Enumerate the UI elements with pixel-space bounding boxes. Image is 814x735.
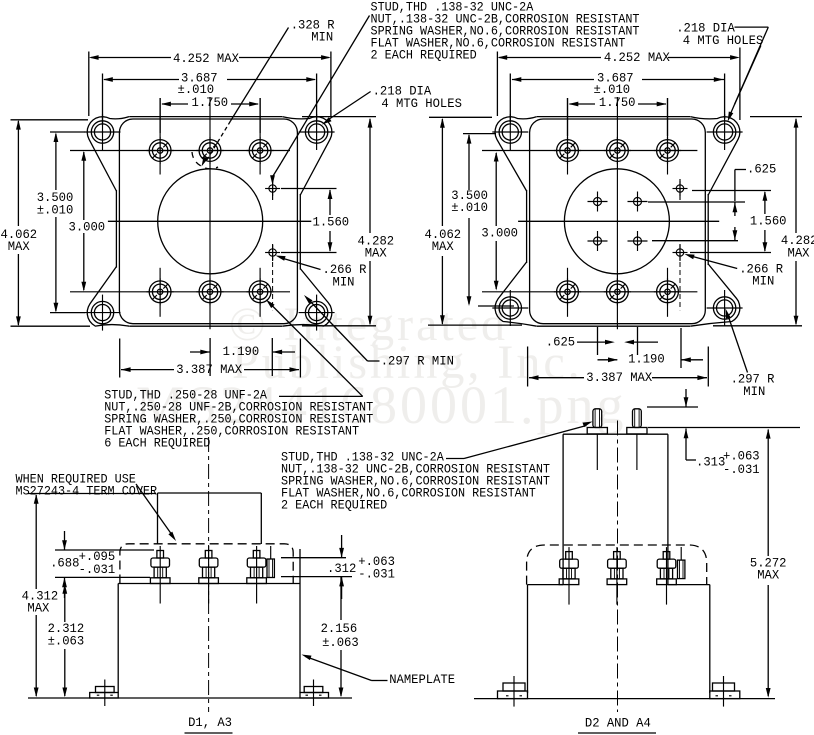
svg-text:1.560: 1.560 (750, 214, 787, 229)
svg-text:D1, A3: D1, A3 (188, 715, 232, 730)
svg-text:1.190: 1.190 (628, 352, 665, 367)
dimension 4.252 MAX (right view) (499, 57, 601, 59)
right view: stud column centerlines (567, 98, 569, 175)
left view: mounting ear top-left (91, 121, 113, 143)
dimension 3.000 (right view) (495, 153, 497, 226)
dimension 4.252 MAX (left view) (91, 57, 171, 59)
dimension 4.062 MAX (left view) (17, 121, 19, 226)
dimension 3.500 +-.010 (right view) (468, 135, 470, 190)
right view: stud row centerlines (482, 150, 697, 152)
svg-text:.625: .625 (747, 162, 776, 177)
dimension 3.000 (left view) (83, 152, 85, 220)
svg-text:MAX: MAX (27, 601, 49, 616)
svg-text:±.063: ±.063 (48, 634, 85, 649)
dimension 1.190 (right view) (598, 359, 618, 361)
left view: horizontal centerline (108, 220, 311, 222)
svg-text:2 EACH REQUIRED: 2 EACH REQUIRED (281, 498, 387, 512)
dimension 3.687 +-.010 (right view) (512, 79, 594, 81)
svg-text:3.000: 3.000 (481, 226, 518, 241)
svg-text:.625: .625 (546, 335, 575, 350)
svg-text:4 MTG HOLES: 4 MTG HOLES (381, 96, 462, 111)
watermark line 3 (136, 374, 627, 436)
leader from top note to upper coil hole (281, 16, 370, 164)
dimension 4.312 MAX (28, 493, 156, 495)
watermark line 1 (229, 297, 508, 352)
watermark line 2 (232, 335, 583, 390)
side view D2,A4: left mounting foot (498, 691, 528, 699)
side view D1,A3: body (117, 584, 119, 693)
side view D2,A4: top coil studs (593, 409, 602, 428)
left view: terminal studs (149, 140, 171, 162)
side view D2,A4: lower body (527, 585, 529, 693)
svg-text:MAX: MAX (365, 246, 387, 261)
right view: mounting ear top-left (499, 121, 521, 143)
svg-text:2 EACH REQUIRED: 2 EACH REQUIRED (371, 49, 477, 63)
dimension 5.272 MAX (767, 430, 769, 557)
right view: coil hole column centerline (679, 179, 681, 200)
leader from .250 note to bottom-right stud (279, 395, 363, 397)
left view: vertical centerline (209, 97, 211, 329)
svg-text:1.750: 1.750 (599, 95, 636, 110)
right view: vertical centerline (616, 97, 618, 329)
svg-text:-.031: -.031 (358, 567, 395, 582)
side view D2,A4: upper housing box (562, 434, 564, 584)
dimension 3.387 MAX (right view) (529, 377, 584, 379)
svg-text:.297 R MIN: .297 R MIN (381, 354, 454, 369)
left view: small coil terminal hole upper (269, 185, 276, 192)
leader from .138 note to left top stud (446, 458, 464, 460)
side view D1,A3: terminal stacks (150, 578, 170, 584)
svg-text:4 MTG HOLES: 4 MTG HOLES (683, 33, 764, 48)
left view: stud column centerlines (159, 98, 161, 175)
right view: mounting ear top-right (713, 121, 735, 143)
svg-text:NAMEPLATE: NAMEPLATE (389, 672, 455, 687)
right view: flange outer edges (537, 116, 690, 118)
svg-text:.313: .313 (696, 454, 725, 469)
side view D1,A3: vertical centerline (208, 437, 210, 712)
left view: coil hole column centerline (272, 179, 274, 200)
svg-text:-.031: -.031 (723, 462, 760, 477)
svg-text:1.560: 1.560 (313, 215, 350, 230)
svg-text:-.031: -.031 (79, 562, 116, 577)
dimension 3.387 MAX (left view) (121, 369, 174, 371)
svg-text:1.190: 1.190 (223, 344, 260, 359)
svg-text:6 EACH REQUIRED: 6 EACH REQUIRED (104, 437, 210, 451)
svg-text:MAX: MAX (757, 568, 779, 583)
svg-text:4.252 MAX: 4.252 MAX (173, 51, 239, 66)
svg-text:MIN: MIN (333, 275, 355, 290)
dimension 1.750 (right view) (570, 103, 596, 105)
svg-text:±.063: ±.063 (322, 635, 359, 650)
svg-text:±.010: ±.010 (37, 202, 74, 217)
svg-text:3.387 MAX: 3.387 MAX (586, 370, 652, 385)
dimension 2.312 +-.063 (64, 585, 66, 623)
dimension 4.062 MAX (right view) (441, 119, 443, 226)
svg-text:±.010: ±.010 (451, 200, 488, 215)
side view D2,A4: vertical centerline (617, 421, 619, 713)
dimension 1.190 (left view) (190, 351, 210, 353)
svg-text:D2 AND A4: D2 AND A4 (585, 716, 651, 731)
svg-text:1.750: 1.750 (192, 95, 229, 110)
side view D1,A3: small coil terminal behind right stud (267, 559, 274, 578)
left view: center circle (158, 169, 263, 274)
side view D1,A3: optional MS27243-4 terminal cover outline (157, 493, 159, 544)
dimension 3.687 +-.010 (left view) (104, 79, 179, 81)
dimension .688 +.095 -.031 (55, 549, 154, 551)
side view D2,A4: terminal stacks (559, 579, 579, 585)
left view: mounting ear bottom-right (305, 301, 327, 323)
svg-text:MIN: MIN (311, 30, 333, 45)
svg-text:4.252 MAX: 4.252 MAX (604, 50, 670, 65)
right view: 4 small holes in circle pattern (594, 198, 602, 206)
svg-text:MIN: MIN (743, 384, 765, 399)
dimension 1.560 (left view) (329, 190, 331, 215)
svg-text:.312: .312 (327, 561, 356, 576)
side view D2,A4: dashed cover outline (527, 545, 707, 585)
left view: flange outer edges (129, 116, 282, 118)
right view: mounting ear bottom-right (713, 297, 735, 319)
svg-text:MIN: MIN (752, 274, 774, 289)
right view: case rounded rectangle (530, 119, 706, 324)
dimension 1.750 (left view) (162, 103, 188, 105)
left view: case rounded rectangle (119, 119, 297, 324)
side view D1,A3: left mounting foot (90, 693, 119, 699)
dimension 1.560 (right view) (764, 192, 766, 214)
dimension 2.156 +-.063 (340, 577, 342, 620)
right view: center circle (564, 169, 669, 274)
right view: terminal studs (557, 140, 579, 162)
left view: mounting ear bottom-left (91, 301, 113, 323)
svg-text:MAX: MAX (788, 245, 810, 260)
side view D2,A4: right mounting foot (710, 691, 740, 699)
right view: horizontal centerline (518, 220, 719, 222)
side view D1,A3: dashed cover outline (120, 544, 293, 584)
dimension .312 +.063 -.031 (right of D1,A3) (281, 557, 346, 559)
svg-text:.688: .688 (50, 556, 79, 571)
dimension .313 +.063 -.031 (647, 406, 698, 408)
right view: mounting ear bottom-left (499, 297, 521, 319)
side view D1,A3: right mounting foot (300, 693, 329, 699)
leader from term cover note (136, 484, 174, 537)
dimension 4.282 MAX (right view) (795, 119, 797, 233)
svg-text:MAX: MAX (8, 239, 30, 254)
side view D2,A4: small coil terminal behind right stud (678, 560, 685, 579)
left view: mounting ear top-right (305, 121, 327, 143)
svg-text:3.387 MAX: 3.387 MAX (176, 362, 242, 377)
svg-text:MAX: MAX (432, 239, 454, 254)
left view: small coil terminal hole lower (269, 249, 276, 256)
svg-text:3.000: 3.000 (69, 219, 106, 234)
left view: stud row centerlines (70, 150, 290, 152)
dimension 3.500 +-.010 (left view) (55, 134, 57, 190)
dimension 4.282 MAX (left view) (369, 119, 371, 233)
right view: small coil terminal hole lower (676, 249, 683, 256)
right view: small coil terminal hole upper (676, 185, 683, 192)
